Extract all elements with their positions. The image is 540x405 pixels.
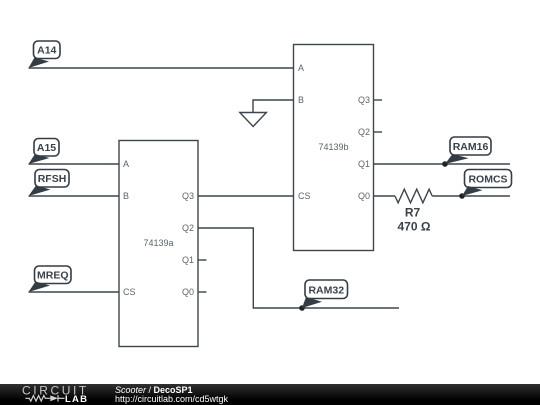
svg-text:A15: A15 — [37, 142, 56, 154]
svg-text:Q1: Q1 — [358, 159, 370, 169]
svg-text:Q3: Q3 — [358, 95, 370, 105]
svg-text:470 Ω: 470 Ω — [398, 220, 431, 234]
svg-text:74139b: 74139b — [318, 142, 348, 152]
svg-text:RAM16: RAM16 — [453, 141, 489, 153]
svg-text:Q2: Q2 — [358, 127, 370, 137]
svg-text:RFSH: RFSH — [38, 173, 67, 185]
svg-text:Q0: Q0 — [182, 287, 194, 297]
svg-text:A: A — [298, 63, 304, 73]
svg-text:MREQ: MREQ — [37, 270, 69, 282]
svg-text:B: B — [123, 191, 129, 201]
svg-text:Q0: Q0 — [358, 191, 370, 201]
svg-text:Q1: Q1 — [182, 255, 194, 265]
svg-text:ROMCS: ROMCS — [468, 174, 507, 186]
svg-text:LAB: LAB — [65, 394, 88, 405]
svg-text:B: B — [298, 95, 304, 105]
svg-text:Q3: Q3 — [182, 191, 194, 201]
svg-text:A14: A14 — [37, 45, 56, 57]
svg-text:RAM32: RAM32 — [308, 285, 344, 297]
svg-text:74139a: 74139a — [143, 238, 173, 248]
svg-text:Q2: Q2 — [182, 223, 194, 233]
svg-text:A: A — [123, 159, 129, 169]
svg-text:R7: R7 — [405, 206, 421, 220]
svg-text:CS: CS — [123, 287, 136, 297]
svg-text:CS: CS — [298, 191, 311, 201]
